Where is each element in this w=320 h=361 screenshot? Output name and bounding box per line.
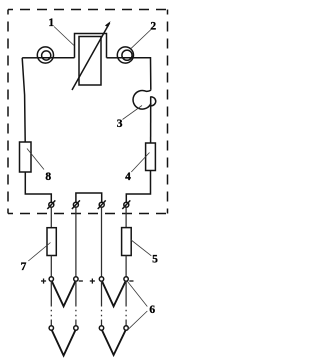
leader for label 1: [54, 27, 74, 46]
polarity signs: [41, 279, 134, 284]
svg-text:5: 5: [152, 254, 158, 266]
minus sign right pair: [129, 280, 133, 282]
leader lines: [27, 27, 151, 330]
leader for label 7: [28, 243, 50, 262]
socket row 1 circles: [49, 277, 53, 281]
terminal 3 (plug contact with slash): [98, 200, 106, 209]
rheostat 1 (slider rail over body): [75, 34, 107, 58]
resistor 8 body: [20, 142, 32, 172]
wire loop to resistor 4: [150, 97, 152, 144]
svg-text:4: 4: [125, 171, 131, 183]
wire continuation column 1 (dash-dot): [50, 281, 52, 326]
rheostat 1 arrow: [72, 21, 111, 90]
wire resistor 8 to terminal 1: [25, 172, 51, 202]
leader for label 8: [27, 149, 44, 170]
wire continuation column 4 (dash-dot): [125, 281, 127, 326]
wire column 3 (terminal 3 to socket): [101, 207, 103, 277]
wire continuation column 2 (dash-dot): [75, 281, 77, 326]
wire continuation column 3 (dash-dot): [101, 281, 103, 326]
svg-text:6: 6: [149, 304, 155, 316]
rheostat 1 body: [79, 37, 101, 86]
resistor 4 body: [146, 143, 156, 171]
enclosure dashed boundary (device case): [8, 10, 168, 214]
wire resistor 5 to socket: [125, 256, 127, 277]
svg-text:7: 7: [21, 261, 27, 273]
wire column 4 below terminal to resistor 5: [125, 207, 127, 227]
minus sign left pair: [79, 280, 83, 282]
resistor 5 body: [122, 228, 132, 256]
spiral coil 2 (filament): [117, 47, 133, 63]
plug cord V2 left: [52, 330, 76, 355]
wire between left spiral and rheostat: [53, 57, 74, 59]
leader for label 6 lower: [128, 311, 148, 330]
resistor 7 body: [47, 228, 56, 256]
svg-text:3: 3: [117, 118, 123, 130]
terminal 4 (plug contact with slash): [122, 200, 130, 209]
leader for label 6 upper: [128, 282, 148, 307]
svg-text:2: 2: [150, 21, 156, 33]
wire resistor 7 to socket: [50, 256, 52, 277]
plug cord V left (to device 6): [52, 281, 76, 306]
plug cord V2 right: [102, 330, 126, 355]
loop 3 (wire loop): [133, 89, 156, 109]
wire top-left horizontal: [22, 57, 37, 59]
leader for label 5: [131, 240, 152, 256]
socket row 2 circles: [49, 326, 53, 330]
plus sign left pair: [41, 279, 46, 284]
jumper wire between terminals 2 and 3: [76, 193, 102, 202]
plus sign right pair: [90, 279, 95, 284]
wire column 1 below terminal to resistor 7: [50, 207, 52, 228]
svg-text:8: 8: [45, 171, 51, 183]
terminal 2 (plug contact with slash): [72, 200, 80, 209]
wire resistor 4 to terminal 4: [126, 171, 150, 203]
leader for label 2: [131, 30, 151, 49]
terminal 1 (plug contact with slash): [47, 200, 55, 209]
leader for label 3: [123, 106, 143, 120]
leader for label 4: [131, 153, 149, 173]
wire left vertical (top corner to resistor 8): [22, 58, 25, 142]
svg-text:1: 1: [48, 17, 54, 29]
wire right top horizontal and down to loop: [133, 58, 150, 90]
spiral coil left (filament): [37, 47, 53, 63]
wire column 2 (terminal 2 to socket): [75, 207, 77, 277]
plug cord V right (to device 6): [102, 281, 126, 306]
wire between rheostat and right spiral: [107, 57, 118, 59]
